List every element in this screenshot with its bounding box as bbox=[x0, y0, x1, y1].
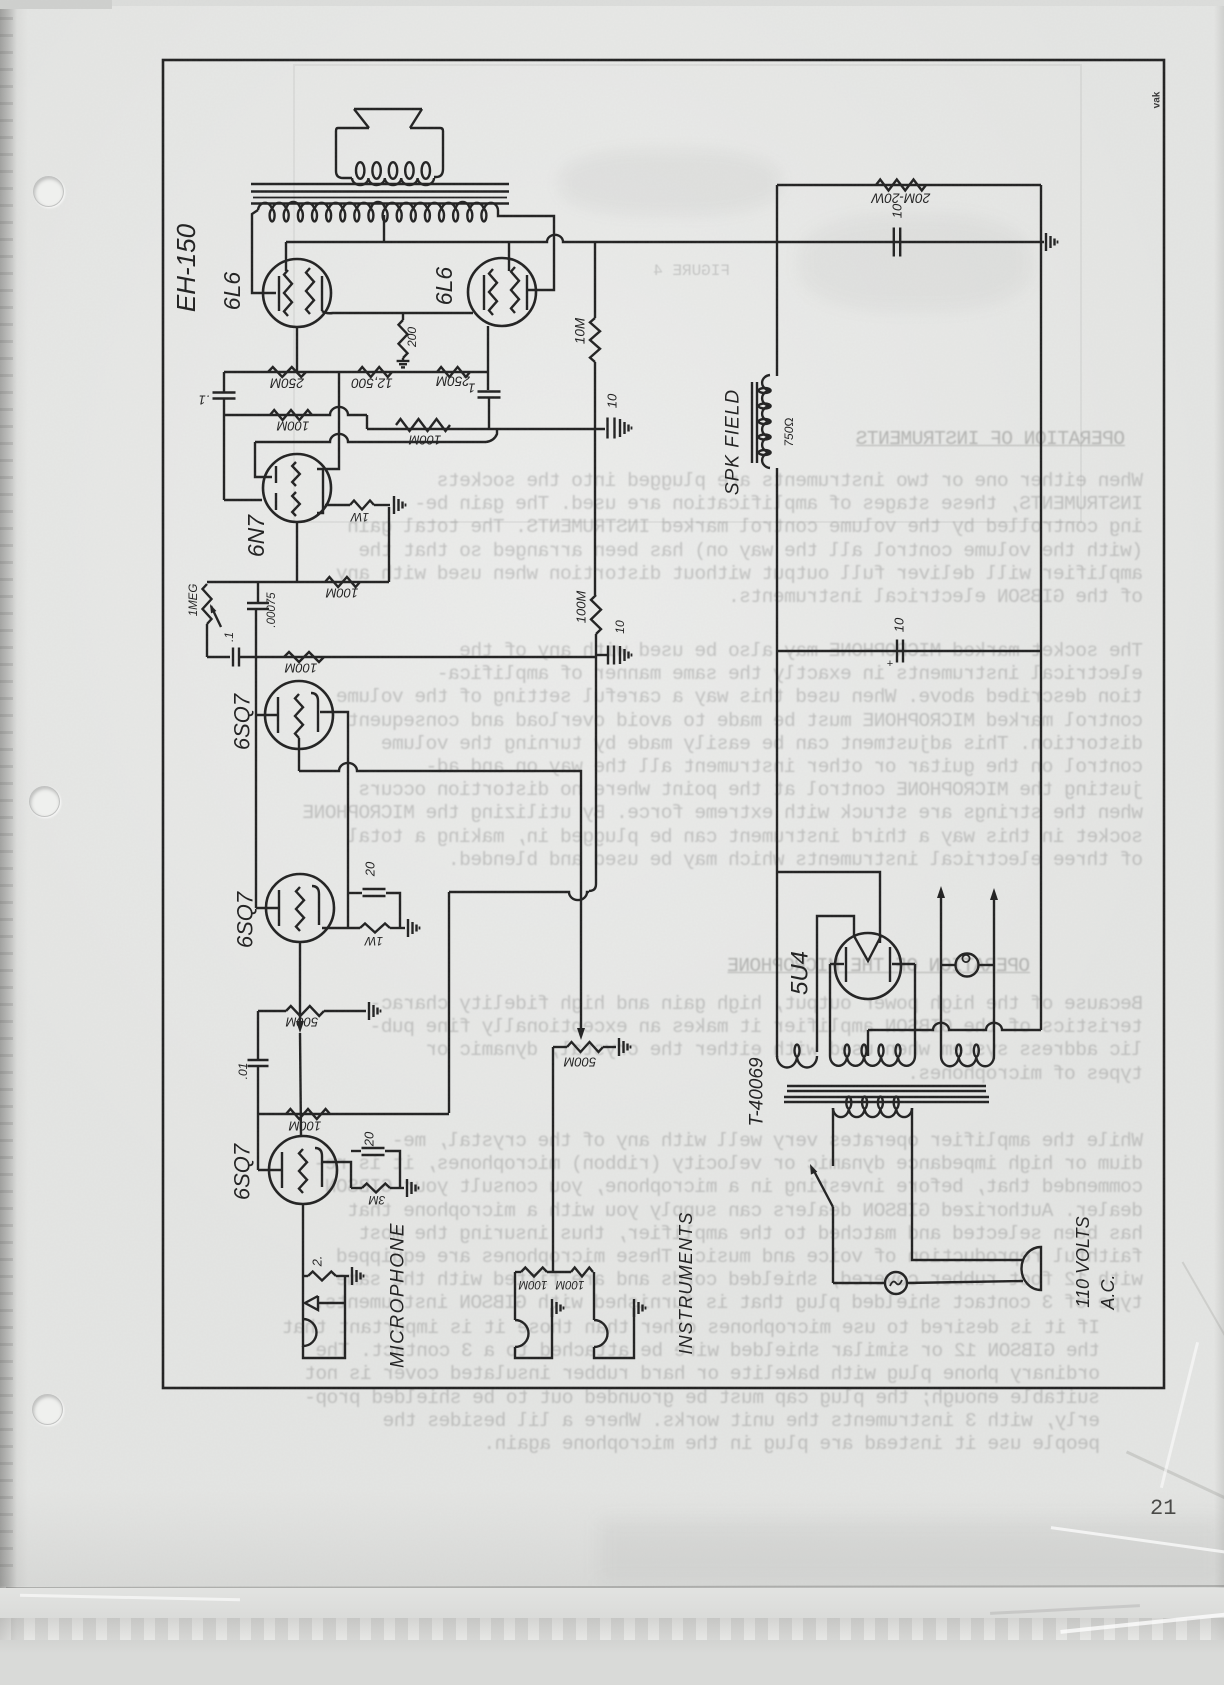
row wire C 6N7 grid 1 with hop bbox=[255, 434, 486, 442]
wire R14 down to instrument jacks bbox=[552, 1047, 554, 1272]
wire R7 node down to row D bbox=[388, 507, 390, 582]
resistor R10 100M bbox=[284, 652, 324, 662]
arrow into volume node bbox=[577, 1028, 585, 1040]
ground at R18 bbox=[351, 1267, 353, 1285]
rectifier V7 5U4 bbox=[835, 933, 901, 999]
bleed-through paragraph 1 bbox=[243, 470, 1143, 609]
capacitor C8 .01 bbox=[257, 1067, 259, 1114]
bleed-through paragraph 5 bbox=[200, 1317, 1100, 1456]
resistor R8 100M bbox=[325, 577, 360, 587]
branch wire to 5U4 filament bbox=[777, 872, 880, 943]
row wire B to cap 10 bbox=[367, 428, 605, 430]
resistor R21 20M-20W bbox=[876, 180, 926, 191]
capacitor C2 10 with ground bbox=[606, 418, 608, 439]
speaker SP1 voice coil bbox=[352, 178, 434, 185]
left edge perforation ridges bbox=[0, 0, 13, 1578]
wire grid V4 bbox=[256, 714, 278, 716]
scanner background bottom bbox=[0, 1640, 1224, 1685]
resistor R1 200 (screen dropping) bbox=[402, 313, 404, 320]
microphone jack sleeve arc bbox=[303, 1319, 317, 1346]
resistor R12 100M vertical bbox=[591, 595, 601, 634]
resistor R15 100M bbox=[286, 1109, 330, 1119]
jack rectangle wire bbox=[448, 892, 450, 1113]
resistor R7 1W bbox=[350, 501, 374, 510]
heater supply arrows bbox=[940, 898, 942, 1056]
wire V7 right plate to HV winding bbox=[914, 964, 916, 1056]
long coupling wire row to volume control with hop bbox=[299, 763, 572, 771]
volume control row 500M bbox=[553, 1046, 567, 1048]
wire V7 filament left leg bbox=[817, 916, 854, 1052]
wire C4 down the grid line bbox=[255, 609, 257, 908]
capacitor C3 .1 (right coupling) bbox=[487, 372, 489, 390]
wire C1 to 6N7 grid 2 bbox=[224, 499, 262, 501]
filter capacitor C11 10 bbox=[777, 650, 1041, 652]
resistor R17 3M bbox=[362, 1184, 390, 1193]
power transformer T2 center tap wire with hops bbox=[867, 1030, 869, 1056]
B+ screen bus wire bbox=[286, 235, 1044, 242]
resistor R20 100M bbox=[571, 1268, 593, 1277]
wiper arrow of R9 bbox=[211, 606, 221, 627]
ground at jack 1 bbox=[551, 1299, 553, 1317]
resistor R6 100M bbox=[396, 419, 450, 431]
border frame of schematic bbox=[163, 60, 1164, 1388]
main right-chain vertical wire bbox=[594, 242, 596, 318]
microphone jack tip triangle bbox=[305, 1296, 318, 1310]
capacitor C10 10 on bus bbox=[893, 228, 895, 257]
bottom page edge crease line bbox=[6, 1585, 1224, 1589]
wire T1 primary right end to V2 plate bbox=[498, 210, 554, 290]
wire V6 bottom to microphone jack bbox=[302, 1204, 304, 1347]
wire V1 cathode to divider bus bbox=[296, 327, 298, 372]
bleed-through heading 2 bbox=[130, 955, 1030, 978]
wire jog down to row B bbox=[366, 415, 368, 429]
V7 plates bbox=[845, 947, 847, 982]
bleed-through paragraph 2 bbox=[243, 640, 1143, 872]
power transformer T2 primary winding bbox=[833, 1108, 912, 1117]
output transformer T1 primary winding bbox=[258, 202, 498, 210]
ground at jack 2 bbox=[633, 1299, 635, 1317]
power transformer T2 5U4 filament winding bbox=[777, 1056, 817, 1068]
speaker field choke coil 750 ohm bbox=[762, 375, 770, 468]
capacitor C6 10 with ground bbox=[596, 654, 607, 656]
wire V4 cathode chain bbox=[320, 712, 348, 928]
wire down to 6N7 grid1 bbox=[255, 442, 272, 477]
tube V4 6SQ7 (first) bbox=[265, 681, 333, 749]
capacitor C9 20 bbox=[351, 1150, 361, 1152]
wire T1 primary left end to V1 plate bbox=[252, 210, 276, 293]
left B+ vertical wire bbox=[776, 185, 778, 376]
ground at R16 bbox=[368, 1002, 370, 1020]
tube V5 6SQ7 (second) bbox=[266, 874, 334, 942]
capacitor C1 .1 (left coupling) bbox=[223, 372, 225, 392]
glossy perforated strip bbox=[0, 1618, 1224, 1640]
primary right wire bbox=[912, 1108, 1023, 1260]
wire V2 cathode down to divider bus bbox=[487, 326, 489, 372]
V7 filament bbox=[854, 936, 881, 961]
volume pot R18 2. row bbox=[303, 1275, 308, 1277]
resistor R2 250M bbox=[268, 367, 306, 377]
bleed-through paragraph 4 bbox=[243, 1130, 1143, 1316]
pilot lamp LP1 bbox=[941, 964, 956, 966]
bottom folded lip bbox=[0, 1588, 1224, 1618]
capacitor C7 20 bbox=[348, 892, 362, 894]
top scanner edge bbox=[0, 0, 1224, 6]
power transformer T2 HV winding bbox=[830, 1056, 915, 1066]
resistor R19 100M bbox=[521, 1268, 547, 1277]
ground below R1 bbox=[402, 358, 404, 361]
instrument jack 1 bbox=[514, 1272, 516, 1320]
instrument jack 2 bbox=[593, 1272, 595, 1320]
tube V1 6L6 (left) bbox=[263, 259, 331, 327]
microphone jack frame wires bbox=[303, 1276, 345, 1358]
fuse F1 bbox=[885, 1272, 907, 1294]
row wire cathode V6 with R17 bbox=[351, 1187, 362, 1189]
right main vertical wire bbox=[1040, 185, 1042, 1030]
wire grid V6 bbox=[258, 1169, 282, 1171]
wire T1 center tap to B+ bus bbox=[383, 215, 385, 242]
power transformer T2 heater winding bbox=[941, 1056, 994, 1066]
row wire cathode V5 with R13 bbox=[322, 927, 360, 929]
capacitor C5 .1 bbox=[232, 648, 234, 667]
tube V3 6N7 bbox=[263, 454, 331, 522]
wire V6 cathode chain bbox=[322, 1162, 351, 1188]
row D wire bbox=[207, 581, 389, 583]
tube V2 6L6 (right) bbox=[468, 258, 536, 326]
ground at end of B+ bus bbox=[1045, 233, 1047, 251]
punch hole bbox=[33, 176, 64, 207]
hum balance rectangle top wire with R21 bbox=[777, 184, 1041, 186]
row G instruments grid wire bbox=[258, 1113, 449, 1115]
power transformer T2 core bbox=[787, 1085, 986, 1087]
power switch SW1 bbox=[814, 1171, 833, 1207]
tube V6 6SQ7 (microphone) bbox=[269, 1136, 337, 1204]
ground at R13 bbox=[407, 919, 409, 937]
resistor R14 500M bbox=[567, 1042, 603, 1052]
bottom primary wire bbox=[833, 1282, 885, 1284]
wire V3 cathode to R7 bbox=[325, 504, 350, 506]
ground at R7 bbox=[393, 496, 395, 514]
page number 21 bbox=[1150, 1496, 1176, 1521]
wire V7 left plate to HV winding bbox=[829, 964, 831, 1056]
bias divider bus wire bbox=[224, 371, 488, 373]
speaker SP1 body bbox=[336, 128, 369, 178]
resistor R4 250M bbox=[437, 367, 470, 377]
bottom-right wrinkle highlights bbox=[1051, 1526, 1224, 1557]
bleed-through heading 1 bbox=[225, 428, 1125, 451]
speaker SP1 horn bbox=[354, 108, 422, 110]
wire R9 to row E bbox=[206, 624, 208, 657]
bleed-through figure box from reverse page bbox=[293, 64, 1082, 523]
potentiometer R9 1MEG bbox=[203, 584, 212, 624]
output transformer T1 core bbox=[251, 183, 509, 185]
wire V4 plate down bbox=[298, 738, 300, 771]
wire V3 bottom to row D bbox=[296, 522, 298, 582]
line plug P1 bbox=[1022, 1247, 1042, 1290]
wire bus to V1 screen bbox=[285, 242, 287, 271]
ground at R17 bbox=[406, 1179, 408, 1197]
row E wire right bbox=[239, 656, 595, 658]
speaker field choke core bbox=[751, 382, 753, 463]
wire divider to 6N7 plate bbox=[325, 372, 339, 469]
instrument jack row 100M 100M bbox=[515, 1271, 521, 1273]
row H 500M to ground bbox=[258, 1010, 286, 1012]
right edge shade bbox=[1214, 0, 1224, 1685]
bleed-through paragraph 3 bbox=[243, 993, 1143, 1086]
capacitor C4 .00075 bbox=[257, 582, 259, 602]
wire choke down to rectifier bbox=[776, 468, 778, 1057]
row wire grid-left with hop bbox=[224, 407, 367, 415]
wire bus to V2 screen bbox=[508, 242, 510, 271]
row E wire left bbox=[207, 656, 230, 658]
wire grid V5 bbox=[256, 907, 279, 909]
resistor R11 10M bbox=[590, 318, 600, 362]
resistor R13 1W bbox=[360, 924, 390, 933]
resistor R5 100M bbox=[270, 410, 312, 420]
wire V1 grid to V2 bbox=[322, 311, 473, 313]
ground at C6 bbox=[619, 646, 621, 664]
ground at R14 bbox=[618, 1038, 620, 1056]
primary left wire bbox=[832, 1108, 834, 1166]
resistor R3 12,500 bbox=[358, 367, 392, 377]
punch hole bbox=[29, 786, 60, 817]
punch hole bbox=[32, 1394, 63, 1425]
ground at C2 bbox=[619, 419, 621, 437]
resistor R16 500M bbox=[286, 1006, 324, 1016]
wire V5 plate down with arrow bbox=[299, 942, 301, 1021]
